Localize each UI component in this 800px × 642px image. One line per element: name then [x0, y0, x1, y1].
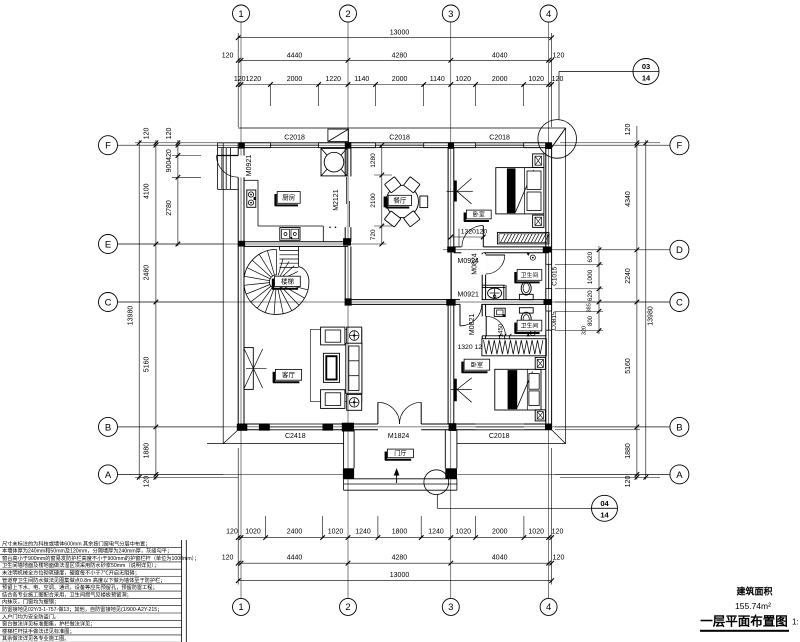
column grid2/E: [343, 238, 351, 245]
dim line sub left: [177, 140, 179, 246]
dining table: [386, 185, 418, 217]
svg-text:2240: 2240: [625, 268, 632, 284]
bedroom2 entry door M0821 in C wall: [459, 304, 461, 326]
svg-text:04: 04: [600, 499, 609, 508]
svg-text:C2018: C2018: [489, 433, 510, 440]
svg-text:M0824: M0824: [471, 253, 478, 275]
svg-text:C2018: C2018: [489, 134, 510, 141]
nightstand 1b: [533, 215, 544, 227]
grid line 2: [347, 22, 349, 598]
roof overhang outline: [238, 127, 565, 129]
svg-text:120: 120: [222, 555, 234, 562]
window glazing: [376, 142, 424, 144]
bed 2 pillow A: [529, 374, 539, 390]
svg-text:D: D: [676, 245, 683, 256]
svg-text:2: 2: [345, 602, 350, 613]
interior wall grid3 D-C thin: [451, 253, 453, 300]
interior wall C from grid2 to grid3: [345, 299, 454, 301]
radiator bench bedroom1: [497, 232, 549, 244]
svg-text:1000: 1000: [587, 269, 594, 284]
svg-text:120: 120: [144, 127, 151, 139]
label box bathroom upper: [514, 272, 516, 282]
dim line main bottom: [238, 562, 551, 564]
label box dining: [385, 198, 387, 208]
grid bubble D right: [670, 240, 689, 259]
column grid4/B: [545, 424, 552, 430]
svg-text:C2418: C2418: [285, 433, 306, 440]
svg-text:防雷接地见02Y/3-1-757-做13；其他，自防雷接地见: 防雷接地见02Y/3-1-757-做13；其他，自防雷接地见(1/900-A2Y…: [2, 605, 162, 613]
svg-text:120: 120: [625, 124, 632, 136]
svg-text:内抹灰，门窗均为塑钢；: 内抹灰，门窗均为塑钢；: [2, 598, 59, 606]
interior wall grid2 stair hall E-C: [344, 246, 346, 299]
svg-text:2000: 2000: [392, 76, 408, 83]
dim line sub bottom: [238, 537, 551, 539]
svg-text:4440: 4440: [287, 555, 303, 562]
svg-text:M0921: M0921: [246, 155, 253, 177]
svg-text:4: 4: [546, 9, 551, 20]
stair straight flight: [279, 246, 281, 250]
svg-text:2100: 2100: [370, 193, 377, 208]
svg-text:1020: 1020: [245, 529, 261, 536]
AC unit bedroom1: [454, 181, 457, 202]
svg-text:卧室: 卧室: [473, 211, 485, 219]
grid line E: [118, 243, 387, 245]
svg-text:620: 620: [587, 290, 594, 301]
grid bubble C right: [670, 293, 689, 312]
pier B wall right: [323, 424, 334, 431]
svg-text:120: 120: [552, 76, 564, 83]
floor drain upper: [527, 253, 531, 256]
svg-text:M1824: M1824: [388, 433, 410, 440]
nightstand 1a: [533, 154, 544, 168]
svg-text:C2018: C2018: [389, 134, 410, 141]
interior wall grid3 C-B (bedroom2 west): [447, 304, 449, 424]
toilet lower: [519, 308, 533, 313]
hanger hooks: [500, 334, 512, 340]
coffee table: [323, 353, 339, 382]
svg-text:2780: 2780: [166, 200, 173, 216]
entry double door M1824: [377, 402, 379, 424]
svg-text:13980: 13980: [127, 306, 134, 326]
washing machine: [494, 308, 505, 316]
bed 1 runner: [507, 168, 516, 213]
svg-text:2: 2: [345, 9, 350, 20]
label box stairs: [272, 279, 274, 289]
svg-text:800: 800: [588, 315, 594, 326]
svg-text:M0921: M0921: [458, 292, 480, 299]
spiral staircase: [244, 249, 309, 314]
chair BL: [384, 211, 401, 227]
bed 2 runner: [508, 370, 518, 409]
label box bathroom lower: [514, 323, 516, 333]
svg-text:120: 120: [222, 52, 234, 59]
svg-text:1450: 1450: [498, 323, 504, 337]
grid bubble 2 bottom: [340, 598, 357, 615]
svg-text:入户门均为安全防盗门。: 入户门均为安全防盗门。: [2, 612, 59, 620]
svg-text:420: 420: [166, 149, 173, 161]
svg-text:620: 620: [587, 251, 594, 262]
washbasin: [488, 288, 502, 298]
bathroom west wall with door openings: [481, 253, 483, 300]
chair right: [420, 196, 428, 208]
svg-text:1800: 1800: [392, 529, 408, 536]
svg-text:720: 720: [370, 229, 377, 240]
interior wall E (kitchen south): [244, 241, 348, 243]
svg-text:1140: 1140: [354, 76, 369, 83]
bed 2 pillow B: [529, 391, 539, 406]
bed 1 fold: [516, 170, 534, 212]
detail ref 03/14: [633, 59, 659, 85]
grid line 1: [240, 22, 242, 156]
column grid3/C: [446, 299, 455, 306]
grid line 3: [450, 22, 452, 598]
chair TL: [385, 177, 402, 193]
door M0824 upper bathroom: [486, 254, 505, 256]
chair left (dark): [384, 197, 388, 208]
svg-text:4: 4: [546, 602, 551, 613]
interior wall D (bedroom south) with doors: [454, 246, 549, 248]
svg-text:4040: 4040: [492, 52, 508, 59]
svg-text:卫生间: 卫生间: [521, 271, 539, 279]
svg-text:厨房: 厨房: [282, 193, 295, 202]
kitchen stove: [247, 190, 256, 207]
svg-text:4440: 4440: [287, 52, 303, 59]
right extension lines: [555, 144, 670, 146]
svg-text:窗台高小于900mm的窗易发防护栏高度不小于900mm的护窗: 窗台高小于900mm的窗易发防护栏高度不小于900mm的护窗栏杆（单位为1000…: [2, 554, 199, 562]
TV cabinet: [244, 348, 253, 390]
column grid4/D: [543, 247, 552, 253]
svg-text:结合各专业施工图配合采用，卫生间燃气见楼板预留洞；: 结合各专业施工图配合采用，卫生间燃气见楼板预留洞；: [2, 590, 132, 598]
grid bubble F right: [670, 136, 689, 155]
column grid2/C: [345, 298, 352, 305]
chair TR: [404, 177, 421, 193]
chair BR: [404, 211, 421, 227]
svg-text:3: 3: [448, 602, 453, 613]
kitchen sink: [280, 228, 300, 241]
grid bubble A left: [99, 465, 118, 484]
dim line 13980 left: [138, 140, 140, 480]
porch column left: [343, 468, 354, 479]
grid bubble F left: [99, 136, 118, 155]
svg-text:1140: 1140: [430, 76, 445, 83]
floor drain lower: [527, 333, 531, 336]
left exterior wall: [237, 143, 239, 430]
svg-text:1880: 1880: [625, 443, 632, 459]
svg-text:3: 3: [448, 9, 453, 20]
svg-text:一层平面布置图: 一层平面布置图: [700, 614, 788, 629]
dim line 13000 bottom: [238, 580, 551, 582]
svg-text:预留上下水、电、空调、通讯，设备等应先预留孔，预留防雷工程；: 预留上下水、电、空调、通讯，设备等应先预留孔，预留防雷工程；: [2, 583, 158, 591]
svg-text:其余做法详见各专业施工图。: 其余做法详见各专业施工图。: [2, 634, 69, 642]
label box living: [273, 372, 275, 383]
dim line main right: [636, 126, 638, 480]
svg-text:B: B: [676, 422, 682, 433]
svg-text:155.74m²: 155.74m²: [735, 601, 771, 611]
dim line sub right: [598, 246, 600, 334]
svg-text:1:: 1:: [792, 618, 799, 627]
porch column right: [445, 468, 457, 479]
bottom exterior wall along B: [238, 423, 551, 425]
svg-text:900: 900: [166, 161, 173, 173]
svg-text:13000: 13000: [390, 30, 410, 37]
overhang miter joints: [552, 128, 566, 148]
svg-text:F: F: [105, 141, 111, 152]
svg-text:管道穿卫生间防水做法见图集做点0.8m 高度以下做为墙体至于: 管道穿卫生间防水做法见图集做点0.8m 高度以下做为墙体至于防护栏；: [2, 576, 165, 584]
window C2418 glazing: [270, 423, 323, 425]
door lower bathroom (west wall, hinge bottom): [485, 316, 487, 336]
svg-text:楼梯: 楼梯: [281, 277, 295, 286]
column grid1/E: [238, 241, 245, 247]
kitchen counter: [257, 180, 259, 226]
svg-text:1240: 1240: [428, 529, 444, 536]
porch steps: [344, 478, 457, 480]
bed 2 fold: [517, 372, 532, 408]
svg-text:餐厅: 餐厅: [393, 196, 407, 205]
pier B wall left: [259, 424, 270, 431]
grid line B: [118, 426, 669, 428]
svg-text:窗台做法详见标准图集，护栏做法详见；: 窗台做法详见标准图集，护栏做法详见；: [2, 620, 95, 628]
svg-text:1020: 1020: [455, 529, 471, 536]
label box bedroom2: [461, 362, 463, 373]
label box kitchen: [274, 194, 276, 205]
top exterior wall along F: [238, 142, 551, 144]
flue square above wall: [328, 129, 349, 141]
svg-text:1: 1: [238, 602, 243, 613]
grid bubble 2 top: [340, 5, 357, 22]
svg-text:未注明机械全方位砌筑硬度，硬度每不小于7℃开启无阻碍；: 未注明机械全方位砌筑硬度，硬度每不小于7℃开启无阻碍；: [2, 569, 140, 577]
grid bubble A right: [670, 465, 689, 484]
svg-text:1320 12: 1320 12: [458, 344, 483, 351]
bed 1 pillow B: [527, 192, 541, 211]
svg-text:1020: 1020: [455, 76, 471, 83]
grid bubble B right: [670, 417, 689, 436]
column grid3/D: [447, 247, 455, 253]
bed 1: [496, 168, 544, 214]
svg-text:14: 14: [642, 74, 651, 83]
nightstand 2b: [535, 410, 545, 421]
column grid4/F: [545, 143, 552, 149]
grid line C: [118, 301, 669, 303]
toilet upper: [519, 294, 533, 299]
svg-text:C0815: C0815: [551, 311, 558, 331]
left extension lines: [118, 144, 223, 146]
svg-text:4280: 4280: [392, 555, 408, 562]
svg-text:13000: 13000: [390, 572, 410, 579]
grid line 4: [548, 22, 550, 598]
column grid2/F: [345, 142, 352, 148]
column grid2/B: [342, 423, 354, 432]
svg-text:E: E: [105, 239, 111, 250]
svg-text:客厅: 客厅: [282, 370, 296, 379]
basin compartment walls: [482, 284, 505, 286]
svg-text:13980: 13980: [648, 306, 655, 326]
svg-text:楼梯栏杆扶手做法详见标准图；: 楼梯栏杆扶手做法详见标准图；: [2, 627, 75, 635]
window C1015 glazing: [545, 264, 547, 288]
grid bubble 4 bottom: [540, 598, 557, 615]
grid bubble C left: [99, 293, 118, 312]
svg-text:2000: 2000: [492, 76, 508, 83]
AC unit bedroom2: [454, 379, 457, 402]
porch walls: [343, 430, 345, 469]
interior wall C bathrooms: [454, 299, 546, 301]
svg-text:03: 03: [642, 62, 650, 71]
svg-text:M2121: M2121: [333, 189, 340, 211]
svg-text:卫生间: 卫生间: [521, 321, 539, 329]
grid bubble 3 bottom: [442, 598, 459, 615]
svg-text:4280: 4280: [392, 52, 408, 59]
grid bubble 1 bottom: [233, 598, 250, 615]
dim line 13000 top: [238, 37, 551, 39]
svg-text:卫生间墙地面及楼地面做法湿区须采用防水砂浆50mm（说明详见: 卫生间墙地面及楼地面做法湿区须采用防水砂浆50mm（说明详见）；: [2, 561, 159, 569]
armchair top: [321, 327, 345, 345]
entry arrow: [396, 470, 398, 483]
svg-text:门厅: 门厅: [394, 450, 406, 458]
svg-text:建筑面积: 建筑面积: [736, 586, 772, 597]
svg-text:1220: 1220: [326, 76, 342, 83]
bed 2 head divider: [526, 369, 528, 410]
dim line main top: [238, 59, 551, 61]
window glazing: [476, 142, 524, 144]
interior wall grid2 kitchen/dining with M2121 opening: [344, 148, 346, 177]
title underline: [700, 630, 789, 632]
svg-text:C1015: C1015: [552, 266, 559, 286]
sofa: [346, 343, 362, 393]
svg-text:120: 120: [553, 52, 565, 59]
svg-text:1: 1: [238, 9, 243, 20]
grid line A: [118, 473, 343, 475]
side table with lamp top: [347, 327, 362, 344]
interior wall grid3 F-D (bedroom west): [447, 148, 449, 247]
svg-text:120: 120: [226, 529, 238, 536]
svg-text:5160: 5160: [625, 358, 632, 374]
svg-text:F: F: [676, 141, 682, 152]
sliding door M2121: [346, 177, 348, 204]
window glazing: [270, 142, 318, 144]
svg-text:2480: 2480: [144, 265, 151, 281]
svg-text:120: 120: [553, 555, 565, 562]
dim line sub top: [238, 84, 551, 86]
side table with lamp bottom: [347, 394, 362, 410]
wardrobe bedroom2: [482, 335, 546, 337]
svg-text:A: A: [676, 470, 683, 481]
dining dim chain 1280/2100/720: [381, 145, 383, 244]
svg-text:1020: 1020: [528, 76, 544, 83]
svg-text:5160: 5160: [144, 357, 151, 373]
column grid3/F: [448, 142, 454, 148]
svg-text:4040: 4040: [492, 555, 508, 562]
corner detail circle grid4/F: [538, 120, 577, 159]
kitchen exterior door M0921: [217, 155, 239, 157]
column grid1/B: [237, 424, 248, 431]
rug outline: [310, 330, 362, 402]
column grid4/C: [544, 299, 552, 305]
bed 1 pillow A: [527, 171, 541, 190]
window C0815 glazing: [545, 311, 547, 330]
svg-text:C2018: C2018: [284, 134, 305, 141]
svg-text:C: C: [105, 297, 112, 308]
kitchen door platform/steps: [217, 143, 219, 190]
svg-text:4340: 4340: [625, 191, 632, 207]
grid bubble B left: [99, 417, 118, 436]
grid bubble E left: [99, 235, 118, 254]
dim line 13980 right: [645, 140, 647, 480]
flue shaft with round duct: [321, 148, 347, 176]
svg-text:120: 120: [166, 127, 173, 139]
bedroom1 door M0921 in D wall: [482, 226, 484, 247]
svg-text:1020: 1020: [328, 529, 344, 536]
detail ref 04/14: [592, 495, 618, 521]
column grid1/F: [239, 143, 245, 149]
dim line main left: [155, 140, 157, 480]
svg-text:4100: 4100: [144, 183, 151, 199]
grid line D: [443, 249, 669, 251]
svg-text:M0821: M0821: [469, 314, 476, 336]
svg-text:1020: 1020: [528, 529, 544, 536]
right exterior wall: [551, 143, 553, 430]
svg-text:14: 14: [600, 510, 609, 519]
svg-text:1280: 1280: [370, 153, 377, 168]
svg-text:B: B: [105, 422, 111, 433]
label box entry: [385, 452, 387, 460]
dots at counter end: [329, 227, 331, 229]
window C2018 bottom glazing: [476, 423, 524, 425]
nightstand 2a: [535, 357, 545, 369]
svg-text:2000: 2000: [287, 76, 303, 83]
svg-text:本墙体厚为240mm和50mm及120mm，分隔墙厚为240: 本墙体厚为240mm和50mm及120mm，分隔墙厚为240mm厚，灰缝勾平；: [2, 547, 172, 555]
svg-text:1240: 1240: [355, 529, 371, 536]
svg-text:120: 120: [552, 529, 564, 536]
top extension lines at wall edges: [237, 33, 239, 127]
grid bubble 4 top: [540, 5, 557, 22]
porch detail circle: [424, 470, 449, 495]
bed 2: [495, 369, 541, 410]
svg-text:2000: 2000: [492, 529, 508, 536]
svg-text:卧室: 卧室: [471, 361, 483, 369]
svg-text:385: 385: [587, 303, 593, 312]
grid bubble 1 top: [233, 5, 250, 22]
column grid3/B: [449, 423, 457, 431]
armchair bottom: [321, 390, 345, 409]
label box bedroom1: [464, 213, 466, 222]
grid bubble 3 top: [442, 5, 459, 22]
svg-text:1880: 1880: [144, 443, 151, 459]
grid line F: [118, 144, 669, 146]
svg-text:2400: 2400: [287, 529, 303, 536]
bed 1 head divider: [524, 168, 526, 214]
svg-text:C: C: [676, 297, 683, 308]
svg-text:A: A: [105, 470, 112, 481]
svg-text:尺寸未标注的为科技或墙体600mm 其余按门窗电气分层中布置: 尺寸未标注的为科技或墙体600mm 其余按门窗电气分层中布置；: [2, 539, 150, 547]
